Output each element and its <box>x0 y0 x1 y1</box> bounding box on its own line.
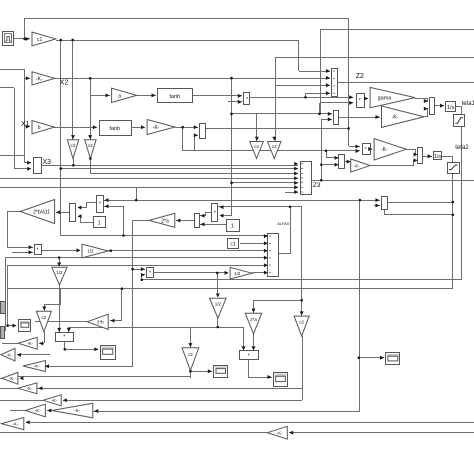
svg-text:*: * <box>37 248 39 254</box>
svg-text:tanh: tanh <box>170 94 181 100</box>
svg-text:1/2: 1/2 <box>87 249 94 254</box>
svg-text:1/s: 1/s <box>447 105 455 111</box>
svg-text:c2: c2 <box>272 144 277 149</box>
svg-text:1/2: 1/2 <box>234 271 241 276</box>
svg-text:-K-: -K- <box>12 421 19 426</box>
svg-text:*: * <box>63 334 65 340</box>
svg-text:X2: X2 <box>60 80 69 87</box>
svg-text:ALFA0: ALFA0 <box>277 221 290 226</box>
svg-text:2*b: 2*b <box>97 320 104 325</box>
svg-text:1: 1 <box>231 224 234 230</box>
svg-text:c2: c2 <box>88 143 93 148</box>
svg-text:*: * <box>359 98 361 104</box>
svg-text:1: 1 <box>98 221 101 227</box>
svg-text:*: * <box>248 353 250 359</box>
svg-text:2*a: 2*a <box>161 218 169 224</box>
svg-text:gama: gama <box>378 96 393 102</box>
svg-text:-K-: -K- <box>34 364 41 369</box>
svg-text:Z2: Z2 <box>356 73 364 80</box>
svg-text:*: * <box>246 97 248 103</box>
svg-text:-K-: -K- <box>153 125 160 131</box>
svg-text:c2: c2 <box>254 144 259 149</box>
svg-text:2*b/a11: 2*b/a11 <box>33 209 50 215</box>
svg-text:-K-: -K- <box>392 115 399 121</box>
svg-text:c1: c1 <box>230 242 236 248</box>
svg-text:X3: X3 <box>43 159 52 166</box>
svg-text:c2: c2 <box>188 352 193 357</box>
svg-text:-K-: -K- <box>7 352 14 357</box>
svg-text:-K-: -K- <box>36 76 43 82</box>
svg-text:teta1: teta1 <box>462 101 474 107</box>
svg-text:c2: c2 <box>71 143 76 148</box>
svg-text:2*a: 2*a <box>250 317 257 322</box>
svg-text:c2: c2 <box>42 315 47 320</box>
svg-text:*: * <box>99 202 101 208</box>
svg-text:c2: c2 <box>299 320 304 325</box>
svg-text:*: * <box>214 210 216 216</box>
svg-text:-K-: -K- <box>27 341 34 346</box>
svg-text:-K-: -K- <box>35 408 42 413</box>
svg-text:b: b <box>38 125 41 131</box>
svg-text:teta2: teta2 <box>455 145 469 151</box>
svg-text:1/s: 1/s <box>434 154 442 160</box>
svg-text:a: a <box>118 93 121 99</box>
svg-text:-K-: -K- <box>354 163 361 168</box>
svg-text:-K-: -K- <box>51 398 58 403</box>
svg-text:-K-: -K- <box>27 386 34 391</box>
svg-text:*: * <box>149 271 151 277</box>
svg-text:*: * <box>365 147 367 153</box>
svg-text:tanh: tanh <box>109 126 120 132</box>
svg-text:-K-: -K- <box>381 147 388 153</box>
svg-text:-K-: -K- <box>9 376 16 381</box>
svg-text:-K-: -K- <box>74 408 81 413</box>
svg-text:-K-: -K- <box>277 430 284 435</box>
svg-text:1/2: 1/2 <box>215 302 222 307</box>
svg-text:Z3: Z3 <box>313 182 321 189</box>
svg-text:c1: c1 <box>37 37 43 43</box>
svg-text:1/2: 1/2 <box>56 270 63 275</box>
